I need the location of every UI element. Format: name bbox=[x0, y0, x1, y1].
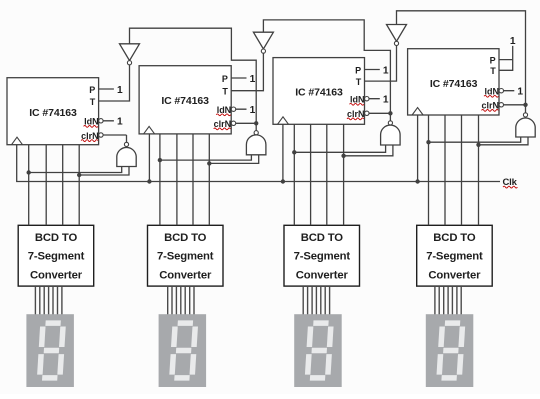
svg-text:BCD TO: BCD TO bbox=[164, 232, 207, 244]
svg-text:clrN: clrN bbox=[81, 131, 99, 141]
svg-text:T: T bbox=[356, 77, 362, 87]
svg-text:IC #74163: IC #74163 bbox=[29, 107, 77, 119]
svg-text:ldN: ldN bbox=[217, 105, 232, 115]
svg-text:7-Segment: 7-Segment bbox=[294, 251, 351, 263]
svg-text:IC #74163: IC #74163 bbox=[430, 78, 478, 90]
svg-text:ldN: ldN bbox=[350, 95, 365, 105]
svg-text:1: 1 bbox=[117, 117, 123, 128]
svg-text:1: 1 bbox=[517, 87, 523, 98]
svg-text:Converter: Converter bbox=[159, 269, 212, 281]
svg-text:clrN: clrN bbox=[214, 119, 232, 129]
svg-text:BCD TO: BCD TO bbox=[301, 232, 344, 244]
svg-text:T: T bbox=[222, 87, 228, 97]
svg-text:Converter: Converter bbox=[296, 269, 349, 281]
svg-text:T: T bbox=[490, 66, 496, 76]
svg-text:ldN: ldN bbox=[84, 117, 99, 127]
svg-text:P: P bbox=[89, 85, 95, 95]
svg-text:Converter: Converter bbox=[428, 269, 481, 281]
svg-text:7-Segment: 7-Segment bbox=[28, 251, 85, 263]
svg-text:T: T bbox=[90, 97, 96, 107]
svg-text:1: 1 bbox=[510, 36, 516, 47]
svg-text:IC #74163: IC #74163 bbox=[161, 95, 209, 107]
svg-text:1: 1 bbox=[383, 65, 389, 76]
svg-text:IC #74163: IC #74163 bbox=[295, 87, 343, 99]
svg-text:BCD TO: BCD TO bbox=[433, 232, 476, 244]
svg-text:ldN: ldN bbox=[485, 87, 500, 97]
svg-text:BCD TO: BCD TO bbox=[35, 232, 78, 244]
svg-text:7-Segment: 7-Segment bbox=[426, 251, 483, 263]
svg-text:1: 1 bbox=[383, 95, 389, 106]
svg-text:1: 1 bbox=[117, 85, 123, 96]
svg-text:clrN: clrN bbox=[347, 109, 365, 119]
svg-text:P: P bbox=[355, 65, 361, 75]
svg-text:1: 1 bbox=[250, 105, 256, 116]
svg-text:1: 1 bbox=[250, 74, 256, 85]
svg-text:P: P bbox=[490, 55, 496, 65]
svg-text:clrN: clrN bbox=[481, 101, 499, 111]
svg-text:P: P bbox=[222, 74, 228, 84]
svg-text:7-Segment: 7-Segment bbox=[157, 251, 214, 263]
svg-text:Converter: Converter bbox=[30, 269, 83, 281]
